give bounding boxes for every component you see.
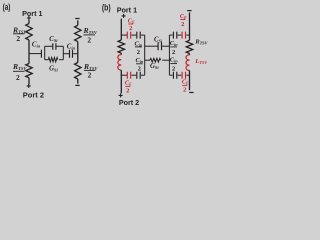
svg-text:RTSV: RTSV: [194, 38, 208, 45]
svg-text:Port 1: Port 1: [22, 9, 42, 18]
wire box rail to black cap top-right (b): [169, 34, 172, 36]
svg-text:Cin: Cin: [170, 40, 178, 47]
wire mid node to left cap (a): [29, 53, 41, 55]
label C_in/2 top-left (b): [135, 40, 143, 56]
label C_E/2 red bottom-left (b): [125, 80, 132, 95]
wire black cap to red cap bottom-right (b): [178, 74, 182, 76]
plus terminal of Port 2 (b): [119, 93, 123, 97]
label R_TSV/2 top-right (a): [83, 26, 98, 45]
box right rail (b): [168, 35, 170, 75]
wire resistor to Port 2 (a): [28, 78, 30, 85]
capacitor C_E/2 bottom-left red (b): [127, 72, 130, 79]
resistor R_TSV/2 top-left (a): [26, 24, 32, 41]
svg-text:2: 2: [87, 36, 91, 45]
svg-text:2: 2: [181, 21, 184, 28]
svg-text:GSi: GSi: [150, 63, 159, 70]
wire node A to red cap (b): [121, 34, 127, 36]
wire minus down to node C (b): [189, 12, 191, 40]
svg-text:Cin: Cin: [136, 57, 144, 64]
wire resistor to minus (a): [77, 79, 79, 84]
label C_E/2 red bottom-right (b): [182, 79, 189, 94]
svg-text:GSi: GSi: [49, 66, 58, 73]
svg-text:2: 2: [172, 65, 175, 72]
svg-text:2: 2: [172, 49, 175, 56]
svg-text:Cin: Cin: [32, 41, 41, 48]
svg-text:CSi: CSi: [49, 36, 58, 43]
capacitor C_in/2 top-left (b): [137, 32, 140, 39]
svg-text:Port 2: Port 2: [23, 90, 44, 99]
svg-text:2: 2: [126, 88, 129, 95]
svg-text:2: 2: [129, 25, 132, 32]
svg-text:2: 2: [88, 71, 92, 80]
svg-text:LTSV: LTSV: [194, 58, 208, 65]
wire red cap to black cap (b): [132, 34, 137, 36]
wire right cap to right rail (a): [73, 53, 78, 55]
label R_TSV/2 top-left (a): [12, 25, 27, 43]
wire minus to resistor (a): [77, 20, 79, 25]
svg-text:Cin: Cin: [135, 40, 143, 47]
svg-text:2: 2: [16, 34, 20, 43]
svg-text:CE: CE: [182, 79, 189, 86]
box left edge / second plate (a): [44, 46, 46, 59]
wire Port1 down to node A (b): [120, 19, 122, 40]
minus terminal of Port 2 (a): [75, 84, 79, 86]
svg-text:2: 2: [138, 66, 141, 73]
wire red cap to right rail (b): [186, 34, 189, 36]
svg-text:Port 2: Port 2: [119, 98, 139, 107]
plus terminal of Port 1 (b): [122, 14, 126, 18]
resistor R_TSV/2 bottom-left (a): [26, 64, 32, 78]
box right edge (a): [62, 46, 64, 59]
capacitor C_E/2 top-left red (b): [127, 32, 130, 39]
resistor R_TSV/2 bottom-right (a): [75, 63, 81, 80]
label C_in/2 top-right (b): [170, 40, 178, 56]
svg-text:2: 2: [183, 87, 186, 94]
wire resistor to inductor left (b): [120, 53, 122, 54]
svg-text:CE: CE: [180, 13, 187, 20]
resistor R_TSV/2 top-right (a): [75, 25, 81, 41]
resistor R_TSV right (b): [186, 40, 192, 53]
svg-text:(b): (b): [102, 3, 111, 13]
plus terminal of Port 1 (a): [27, 16, 31, 20]
svg-text:(a): (a): [3, 2, 11, 12]
inductor L_TSV left red (b): [118, 55, 121, 71]
label R_TSV/2 bottom-left (a): [12, 62, 27, 82]
capacitor C_in/2 top-right (b): [173, 32, 176, 39]
minus terminal of Port 1 (b): [187, 10, 191, 12]
wire inductor down to Port 2 (b): [120, 70, 122, 93]
wire node D to red cap bottom-left (b): [121, 74, 127, 76]
G_Si branch with resistor (b): [145, 59, 150, 61]
capacitor C_E/2 bottom-right red (b): [182, 72, 185, 79]
capacitor C_in right (a): [70, 50, 73, 58]
wire black cap to box rail bottom-left (b): [141, 74, 145, 76]
wire red cap to black cap bottom-left (b): [132, 74, 137, 76]
inductor L_TSV right red (b): [186, 55, 189, 71]
capacitor C_in/2 bottom-right (b): [173, 72, 176, 79]
box top edge with capacitor C_Si (a): [45, 45, 53, 47]
box bottom edge with resistor G_Si (a): [45, 59, 49, 61]
wire black cap to box rail (b): [141, 34, 145, 36]
wire red cap to right rail bottom (b): [186, 74, 189, 76]
label C_E/2 red top-left (b): [128, 18, 135, 32]
wire box to right cap (a): [63, 53, 69, 55]
svg-text:Cin: Cin: [67, 44, 76, 51]
svg-text:2: 2: [137, 49, 140, 56]
wire black cap to red cap top-right (b): [178, 34, 182, 36]
wire inductor down to Port2 minus (b): [189, 70, 191, 90]
wire node F to black cap bottom-right (b): [169, 74, 172, 76]
plus terminal of Port 2 (a): [27, 84, 31, 88]
svg-text:2: 2: [16, 73, 20, 82]
minus terminal of Port 2 (b): [189, 92, 193, 94]
svg-text:Port 1: Port 1: [117, 5, 137, 14]
label C_E/2 red top-right (b): [180, 13, 187, 28]
label C_in/2 bottom-left (b): [136, 57, 144, 73]
capacitor C_E/2 top-right red (b): [182, 32, 185, 39]
wire resistor to inductor right (b): [189, 54, 191, 55]
svg-text:Cin: Cin: [170, 57, 178, 64]
label C_in/2 bottom-right (b): [170, 57, 178, 73]
wire resistor to mid node (a): [28, 40, 30, 64]
label R_TSV/2 bottom-right (a): [83, 62, 98, 80]
capacitor C_in left plate (a): [40, 50, 42, 58]
resistor R_TSV left (b): [118, 40, 124, 53]
wire Port1 to resistor (a): [28, 20, 30, 24]
C_Si branch with capacitor (b): [145, 45, 158, 47]
wire right rail mid (a): [77, 42, 79, 63]
svg-text:CE: CE: [125, 80, 132, 87]
minus terminal of Port 1 (a): [75, 18, 79, 20]
box left rail (b): [144, 35, 146, 75]
capacitor C_in/2 bottom-left (b): [137, 72, 140, 79]
